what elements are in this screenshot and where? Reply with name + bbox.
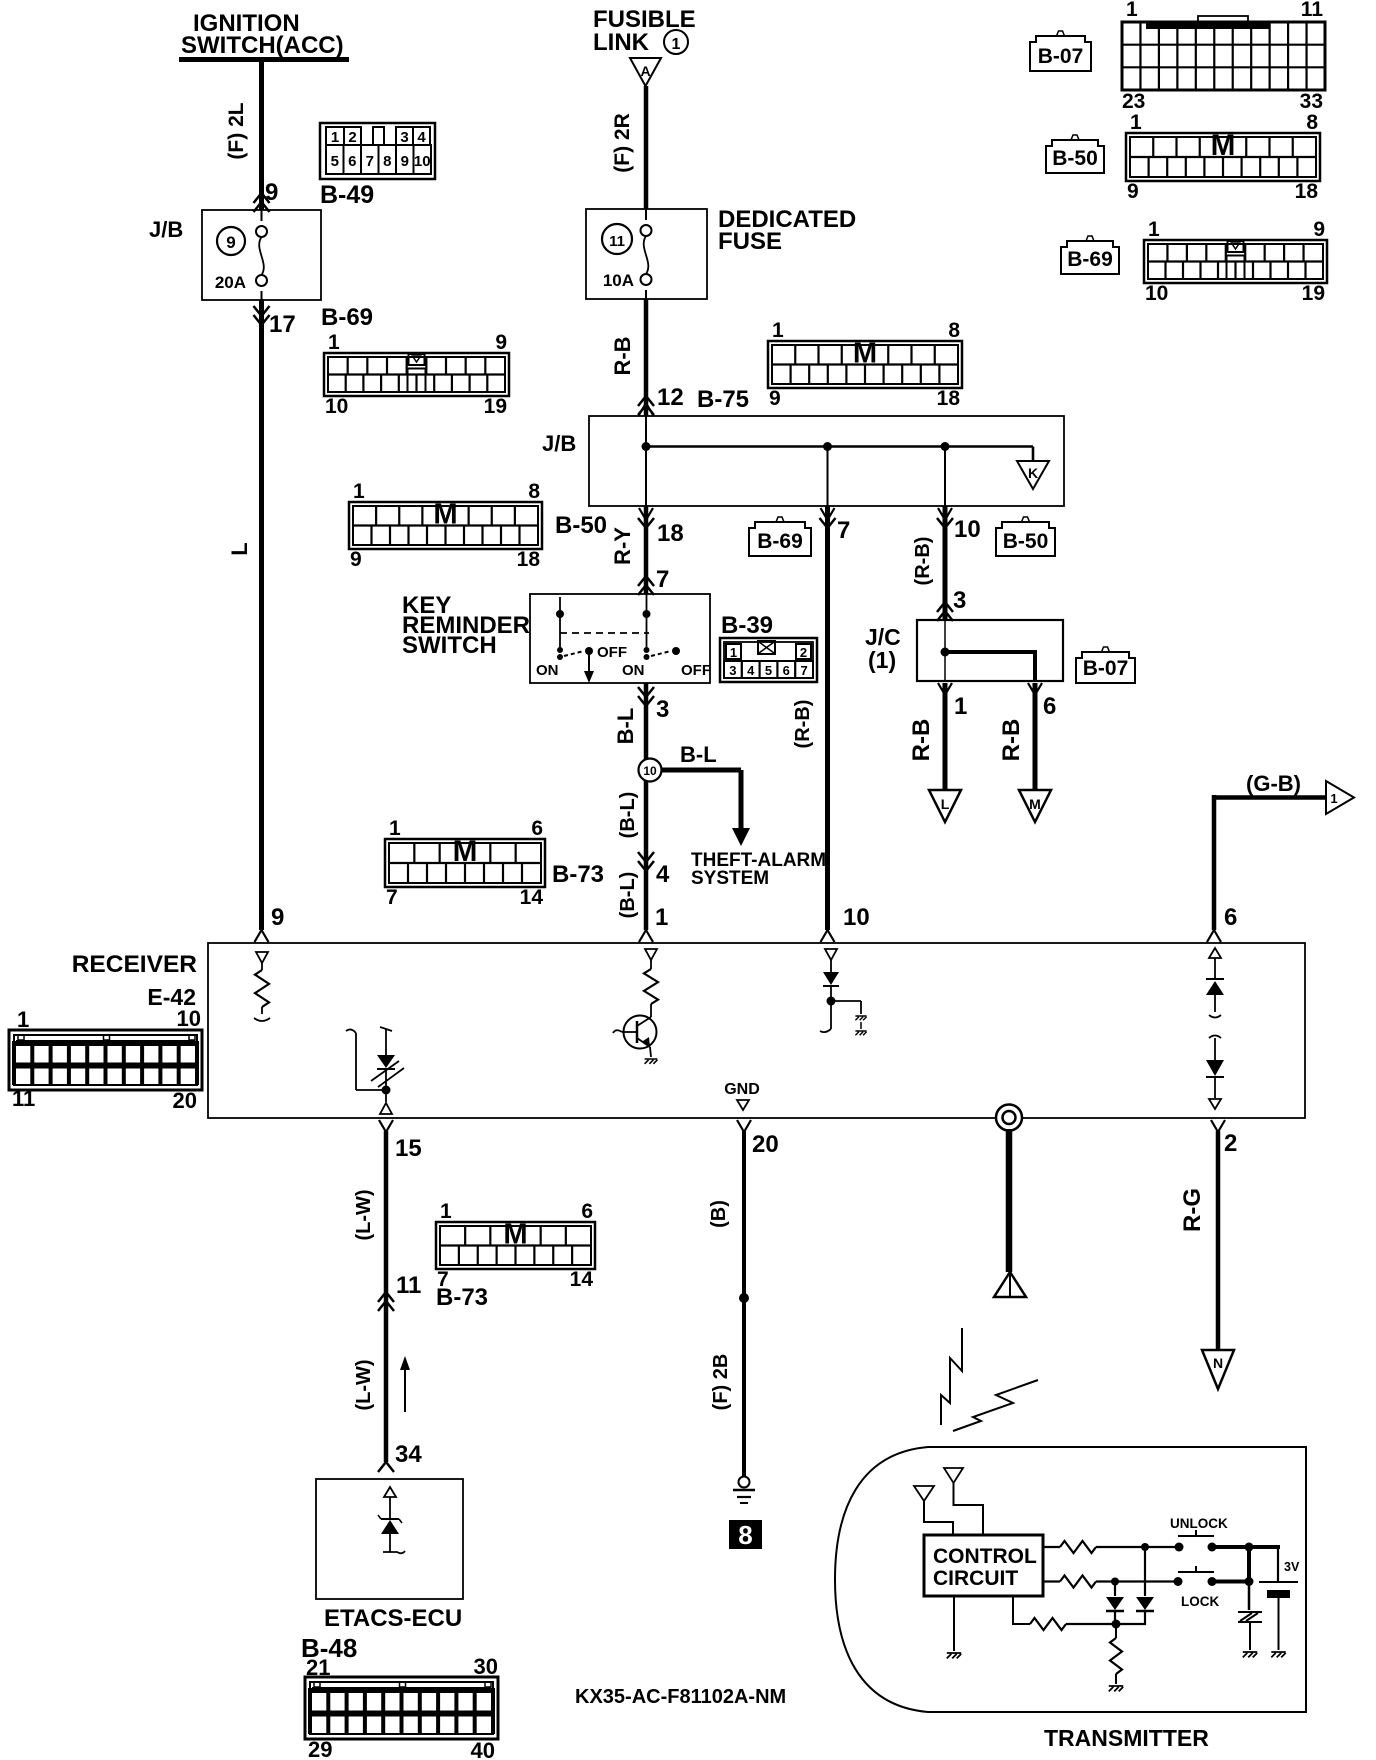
svg-text:FUSE: FUSE [718, 228, 782, 255]
svg-text:3: 3 [656, 696, 669, 723]
svg-text:ETACS-ECU: ETACS-ECU [324, 1605, 462, 1632]
connector B-69 grid (top-right) [1144, 218, 1327, 305]
svg-text:B-49: B-49 [320, 181, 374, 209]
svg-text:30: 30 [474, 1654, 498, 1679]
svg-text:1: 1 [954, 693, 967, 720]
svg-text:8: 8 [948, 319, 960, 342]
svg-text:18: 18 [1295, 180, 1319, 203]
pin 20 label [752, 1131, 779, 1158]
svg-text:LOCK: LOCK [1181, 1594, 1219, 1609]
wire (L-W) from receiver pin 15 to ETACS-ECU [384, 1131, 389, 1462]
svg-text:20: 20 [173, 1088, 197, 1113]
svg-text:B-73: B-73 [436, 1284, 488, 1311]
wire label R-Y [610, 527, 635, 565]
svg-text:J/B: J/B [542, 431, 576, 456]
J/C exit fork pin 1 [938, 683, 952, 695]
svg-text:2: 2 [1224, 1130, 1237, 1157]
LED diode D2 (right) [1120, 1547, 1154, 1624]
svg-text:9: 9 [1313, 218, 1325, 241]
pin 4 label [656, 861, 670, 888]
svg-text:7: 7 [837, 517, 850, 544]
trunk exit fork below J/B (pin 18) [638, 508, 654, 528]
radio wave flash (lower) [953, 1380, 1038, 1431]
current direction arrow beside (L-W) wire [400, 1356, 410, 1412]
dedicated fuse 11 box [586, 209, 707, 299]
resistor R (unlock row 1) [1043, 1541, 1176, 1553]
svg-text:9: 9 [401, 153, 409, 170]
svg-text:1: 1 [440, 1200, 452, 1223]
wire (F) 2R from fusible link to dedicated fuse [644, 86, 649, 209]
wire (R-B) from J/B to receiver pin 10 [825, 506, 830, 930]
diode network inside receiver (pin 10 input) [820, 949, 867, 1035]
svg-text:1: 1 [655, 904, 668, 931]
control circuit ground leg [947, 1596, 961, 1658]
connector B-49 label [320, 181, 374, 209]
wire terminal fork at receiver pin 10 [821, 930, 835, 942]
svg-text:R-Y: R-Y [610, 527, 635, 565]
wire fork below receiver pin 20 [737, 1120, 751, 1132]
connector B-48 grid [305, 1654, 498, 1760]
branch wire B-L to theft-alarm system [661, 770, 750, 846]
svg-text:N: N [1213, 1355, 1223, 1371]
connector E-42 grid [9, 1006, 202, 1113]
pin 6 label (J/C) [1043, 693, 1056, 720]
svg-text:8: 8 [383, 153, 391, 170]
svg-text:6: 6 [348, 153, 356, 170]
svg-text:3: 3 [400, 129, 408, 146]
wire label L [227, 542, 252, 555]
svg-text:(1): (1) [868, 647, 896, 673]
svg-text:1: 1 [772, 319, 784, 342]
wire break chevrons at pin 11 [378, 1292, 394, 1311]
svg-text:1: 1 [1148, 218, 1160, 241]
wire break chevrons at pin 7 (trunk) [638, 576, 654, 595]
wire (G-B) to receiver pin 6 [1214, 795, 1326, 930]
svg-text:11: 11 [609, 233, 625, 250]
svg-text:23: 23 [1122, 90, 1145, 113]
svg-text:29: 29 [308, 1737, 332, 1760]
transmitter outline (key fob) [835, 1447, 1306, 1712]
svg-text:1: 1 [328, 331, 340, 354]
infrared LED pair inside receiver (pin 6 / pin 2) [1206, 948, 1224, 1109]
svg-text:18: 18 [937, 387, 961, 410]
svg-text:10A: 10A [603, 271, 634, 290]
svg-text:5: 5 [765, 663, 772, 678]
svg-text:12: 12 [657, 384, 684, 411]
svg-text:7: 7 [386, 886, 398, 909]
svg-text:17: 17 [269, 311, 296, 338]
svg-text:2: 2 [800, 645, 807, 660]
branch exit fork below J/B (pin 7) [820, 508, 836, 528]
svg-text:(F) 2L: (F) 2L [225, 102, 248, 159]
wire from bus to J/B bottom (R-B branch 7) [827, 447, 829, 507]
wire terminal fork at receiver pin 9 [255, 930, 269, 942]
svg-text:(R-B): (R-B) [912, 537, 934, 586]
wire fork below receiver pin 15 [379, 1120, 393, 1132]
svg-text:OFF: OFF [597, 644, 627, 661]
wire terminal fork at receiver pin 1 [639, 930, 653, 942]
svg-text:OFF: OFF [681, 662, 711, 679]
svg-text:R-B: R-B [908, 719, 935, 762]
svg-text:40: 40 [471, 1738, 495, 1760]
connector B-73 (lower grid) [436, 1200, 595, 1291]
receiver pin 6 number [1224, 904, 1237, 931]
svg-text:(G-B): (G-B) [1246, 771, 1301, 796]
junction block J/B (distribution) [542, 416, 1064, 506]
antenna feed wire from coaxial connector [1006, 1129, 1013, 1272]
svg-text:21: 21 [306, 1655, 330, 1680]
svg-text:10: 10 [414, 153, 431, 170]
receiver pin 10 number [843, 904, 870, 931]
svg-text:ON: ON [622, 662, 645, 679]
svg-text:6: 6 [1043, 693, 1056, 720]
svg-text:19: 19 [1302, 282, 1325, 305]
svg-text:R-G: R-G [1179, 1188, 1206, 1232]
svg-text:34: 34 [395, 1441, 422, 1468]
ground terminal (eyelet + ground) [733, 1477, 755, 1504]
wire label (L-W) upper [353, 1189, 375, 1240]
connector B-50 (left grid) [349, 480, 542, 571]
switch UNLOCK [1170, 1516, 1228, 1552]
terminal triangle K inside J/B [1017, 461, 1049, 489]
wire R-B from dedicated fuse to J/B [644, 299, 649, 416]
wire R-B to triangle L [943, 683, 948, 790]
svg-text:1: 1 [672, 36, 681, 53]
connector B-75 grid [768, 319, 962, 410]
svg-text:20A: 20A [215, 273, 246, 292]
wire B-L from key reminder switch to receiver pin 1 [644, 683, 649, 930]
wire break chevrons at pin 4 [638, 852, 654, 871]
svg-text:11: 11 [396, 1272, 421, 1299]
svg-text:B-50: B-50 [1003, 530, 1049, 553]
KEY REMINDER SWITCH label [402, 592, 530, 659]
svg-text:K: K [1028, 465, 1038, 481]
wire (R-B) from J/B to J/C [943, 506, 948, 620]
svg-text:7: 7 [800, 663, 807, 678]
wire label (F) 2L [225, 102, 248, 159]
connector B-39 [720, 638, 817, 682]
GND node inside receiver [724, 1081, 760, 1110]
resistor R (lock row 2) [1043, 1576, 1175, 1588]
svg-text:B-69: B-69 [1067, 248, 1113, 271]
svg-text:1: 1 [1126, 0, 1138, 21]
ETACS-ECU box with zener diode [316, 1479, 463, 1599]
svg-text:1: 1 [1330, 791, 1337, 806]
pin 3 label [656, 696, 669, 723]
wire break chevrons below key reminder switch [638, 687, 654, 706]
svg-text:8: 8 [528, 480, 540, 503]
pin 11 label [396, 1272, 421, 1299]
ETACS-ECU label [324, 1605, 462, 1632]
svg-text:3: 3 [729, 663, 736, 678]
wire (B)/(F) 2B ground wire from pin 20 [742, 1131, 746, 1477]
pin 17 label below J/B [269, 311, 296, 338]
wire break chevrons above J/B [254, 193, 270, 212]
radio wave flash (upper) [941, 1328, 962, 1425]
svg-text:9: 9 [350, 548, 362, 571]
svg-text:L: L [941, 796, 950, 812]
node IGNITION SWITCH(ACC) label [181, 10, 344, 59]
svg-text:10: 10 [643, 764, 657, 778]
svg-text:9: 9 [226, 233, 235, 252]
svg-text:R-B: R-B [610, 336, 635, 375]
resistor + transistor inside receiver (pin 1 input) [613, 949, 658, 1064]
connector B-49 [320, 123, 435, 179]
svg-text:(B): (B) [708, 1200, 730, 1228]
wire from bus to J/B bottom (R-B branch 10) [944, 447, 946, 507]
svg-text:1: 1 [1130, 111, 1142, 134]
pin 12 label [657, 384, 684, 411]
receiver E-42 box [208, 943, 1305, 1118]
connector B-48 label [301, 1633, 357, 1663]
wire label (F) 2B [710, 1354, 732, 1411]
photo diode network inside receiver (pin 15) [346, 1027, 404, 1114]
connector B-75 label [697, 386, 749, 413]
junction at resistor/diode node [1112, 1620, 1121, 1629]
pin 3 label (J/C) [953, 587, 966, 614]
svg-text:9: 9 [495, 331, 507, 354]
svg-text:14: 14 [520, 886, 544, 909]
LED diode D1 (left) [1106, 1582, 1124, 1625]
connector E-42 label [147, 984, 196, 1010]
wire label (B-L) lower [617, 872, 639, 919]
svg-text:LINK: LINK [593, 29, 650, 56]
wire R-G from receiver pin 2 [1216, 1131, 1221, 1350]
bus wire inside J/B [642, 416, 1034, 506]
svg-text:SYSTEM: SYSTEM [691, 868, 769, 889]
svg-text:(F) 2B: (F) 2B [710, 1354, 732, 1411]
svg-text:B-69: B-69 [757, 530, 803, 553]
svg-text:L: L [227, 542, 252, 555]
svg-text:ON: ON [536, 662, 559, 679]
svg-text:(L-W): (L-W) [353, 1359, 375, 1410]
svg-text:SWITCH(ACC): SWITCH(ACC) [181, 32, 344, 59]
connector B-50 label (left) [555, 512, 607, 539]
svg-text:10: 10 [1145, 282, 1168, 305]
svg-text:(R-B): (R-B) [792, 700, 814, 749]
switch LOCK [1174, 1566, 1220, 1609]
wire label R-B [610, 336, 635, 375]
ground reference 8 (reversed) [729, 1520, 762, 1550]
node THEFT-ALARM SYSTEM label [691, 850, 826, 889]
svg-text:(L-W): (L-W) [353, 1189, 375, 1240]
wire label R-B (left leg) [908, 719, 935, 762]
connector B-50 outline tag (mid) [996, 517, 1055, 556]
key reminder switch right pole (on trunk wire) [622, 594, 711, 679]
wire L from J/B to receiver pin 9 [259, 300, 264, 930]
connector B-07 outline tag (top) [1030, 31, 1091, 71]
wire fork below receiver pin 2 [1211, 1120, 1225, 1132]
connector B-69 outline tag (mid) [749, 517, 811, 556]
terminal triangle L [929, 790, 961, 822]
pin 9 label at J/B [265, 179, 278, 206]
TRANSMITTER label [1044, 1725, 1209, 1751]
wire R-B to triangle M [1033, 683, 1038, 790]
svg-text:UNLOCK: UNLOCK [1170, 1516, 1228, 1531]
wire terminal fork at receiver pin 6 [1207, 930, 1221, 942]
svg-text:B-69: B-69 [321, 304, 373, 331]
svg-text:8: 8 [1306, 111, 1318, 134]
svg-text:3: 3 [953, 587, 966, 614]
svg-text:B-75: B-75 [697, 386, 749, 413]
svg-text:18: 18 [657, 520, 684, 547]
pin 1 label (J/C) [954, 693, 967, 720]
wire (F) 2L from ignition switch to J/B [259, 62, 264, 210]
svg-text:11: 11 [12, 1086, 35, 1111]
svg-text:4: 4 [417, 129, 426, 146]
key reminder switch box [530, 594, 710, 683]
pin 7 label (R-B branch) [837, 517, 850, 544]
svg-text:J/B: J/B [149, 217, 183, 242]
wire label (R-B) right [912, 537, 934, 586]
drawing number KX35-AC-F81102A-NM [575, 1686, 786, 1708]
svg-text:7: 7 [656, 566, 669, 593]
wire R-Y from J/B to key reminder switch [644, 506, 649, 594]
wire end fork at ETACS-ECU [378, 1462, 394, 1472]
pin 2 label [1224, 1130, 1237, 1157]
wire label (B) [708, 1200, 730, 1228]
svg-text:9: 9 [1127, 180, 1139, 203]
pin 34 label [395, 1441, 422, 1468]
svg-text:10: 10 [177, 1006, 201, 1031]
svg-text:R-B: R-B [998, 719, 1025, 762]
connector B-69 label (upper-left) [321, 304, 373, 331]
svg-text:9: 9 [265, 179, 278, 206]
svg-text:3V: 3V [1284, 1560, 1300, 1574]
svg-text:4: 4 [747, 663, 755, 678]
svg-text:TRANSMITTER: TRANSMITTER [1044, 1725, 1209, 1751]
svg-text:6: 6 [581, 1200, 593, 1223]
wire unlock to battery positive [1214, 1543, 1280, 1583]
wire lock to common node [1214, 1547, 1254, 1610]
svg-text:10: 10 [325, 395, 348, 418]
wire label R-B (right leg) [998, 719, 1025, 762]
svg-text:10: 10 [954, 516, 981, 543]
branch wire label B-L [680, 742, 717, 767]
svg-text:9: 9 [769, 387, 781, 410]
piezo sounder element [1238, 1612, 1262, 1657]
connector B-39 label [721, 612, 773, 639]
svg-text:6: 6 [531, 817, 543, 840]
resistor R (lock row 3) from control circuit bottom [1013, 1596, 1112, 1630]
wire break chevrons at pin 3 (J/C) [937, 602, 953, 621]
svg-text:B-50: B-50 [555, 512, 607, 539]
svg-text:8: 8 [738, 1520, 752, 1550]
bus bar under IGNITION SWITCH(ACC) [179, 57, 349, 62]
svg-text:4: 4 [656, 861, 670, 888]
svg-text:(B-L): (B-L) [617, 792, 639, 839]
svg-text:14: 14 [570, 1268, 594, 1291]
svg-text:(F) 2R: (F) 2R [611, 113, 634, 173]
battery 3V [1259, 1560, 1300, 1657]
svg-text:33: 33 [1300, 90, 1323, 113]
svg-text:(B-L): (B-L) [617, 872, 639, 919]
wire label B-L [613, 708, 638, 745]
wire label R-G [1179, 1188, 1206, 1232]
coaxial antenna connector on receiver [996, 1105, 1022, 1131]
svg-text:B-07: B-07 [1083, 657, 1129, 680]
transmitter antenna (left) [914, 1486, 953, 1535]
svg-text:7: 7 [366, 153, 374, 170]
svg-text:6: 6 [783, 663, 790, 678]
svg-text:11: 11 [1301, 0, 1324, 21]
svg-text:RECEIVER: RECEIVER [72, 951, 198, 978]
svg-text:15: 15 [395, 1135, 422, 1162]
connector B-73 label (upper) [552, 861, 604, 888]
svg-text:B-L: B-L [680, 742, 717, 767]
wire label (G-B) [1246, 771, 1301, 796]
splice 10 (circled) [639, 759, 662, 782]
connector B-73 (upper grid) [385, 817, 545, 909]
svg-text:6: 6 [1224, 904, 1237, 931]
svg-text:B-39: B-39 [721, 612, 773, 639]
svg-text:18: 18 [517, 548, 541, 571]
branch exit fork below J/B (pin 10) [937, 508, 953, 528]
pin 15 label [395, 1135, 422, 1162]
connector B-50 grid (top-right) [1126, 111, 1320, 203]
terminal triangle A (fusible link) [630, 58, 661, 86]
svg-text:B-L: B-L [613, 708, 638, 745]
J/C exit fork pin 6 [1028, 683, 1042, 695]
DEDICATED FUSE label [718, 206, 856, 255]
trunk wire fork at J/B top [639, 403, 653, 415]
antenna symbol [994, 1272, 1026, 1297]
svg-text:2: 2 [348, 129, 356, 146]
pin 10 label (R-B branch) [954, 516, 981, 543]
receiver pin 9 number [271, 904, 284, 931]
junction on ground wire [739, 1293, 749, 1303]
svg-text:CIRCUIT: CIRCUIT [933, 1567, 1018, 1590]
svg-text:CONTROL: CONTROL [933, 1545, 1037, 1568]
resistor R (to ground) [1109, 1624, 1123, 1691]
connector B-50 outline tag (top) [1046, 135, 1104, 173]
svg-text:1: 1 [353, 480, 365, 503]
svg-text:B-50: B-50 [1052, 147, 1098, 170]
svg-text:9: 9 [271, 904, 284, 931]
junction block J/B (fuse 9) [149, 210, 321, 300]
svg-text:A: A [640, 63, 650, 79]
svg-text:19: 19 [484, 395, 507, 418]
transmitter antenna (right) [944, 1468, 983, 1535]
wire label (F) 2R [611, 113, 634, 173]
pin 7 label (trunk) [656, 566, 669, 593]
receiver pin 1 number [655, 904, 668, 931]
svg-text:1: 1 [17, 1007, 29, 1032]
svg-text:GND: GND [724, 1081, 760, 1098]
svg-text:5: 5 [331, 153, 339, 170]
connector B-07 outline tag (mid) [1076, 647, 1135, 683]
terminal triangle 1 (G-B) [1326, 781, 1354, 814]
svg-text:M: M [1029, 796, 1041, 812]
key reminder switch link (dashed) [560, 632, 649, 634]
svg-text:1: 1 [389, 817, 401, 840]
terminal triangle N [1202, 1350, 1234, 1389]
svg-text:SWITCH: SWITCH [402, 632, 497, 659]
connector B-73 label (lower) [436, 1284, 488, 1311]
svg-text:1: 1 [730, 645, 737, 660]
wire label (R-B) middle [792, 700, 814, 749]
svg-text:KX35-AC-F81102A-NM: KX35-AC-F81102A-NM [575, 1686, 786, 1708]
connector B-69 outline tag (top) [1061, 236, 1119, 274]
wire label (L-W) lower [353, 1359, 375, 1410]
connector B-07 grid (3x11) [1122, 0, 1325, 113]
svg-text:10: 10 [843, 904, 870, 931]
pin 18 label [657, 520, 684, 547]
joint connector J/C (1) [865, 620, 1063, 681]
svg-text:B-07: B-07 [1038, 45, 1084, 68]
terminal triangle M [1019, 790, 1051, 822]
svg-text:B-73: B-73 [552, 861, 604, 888]
